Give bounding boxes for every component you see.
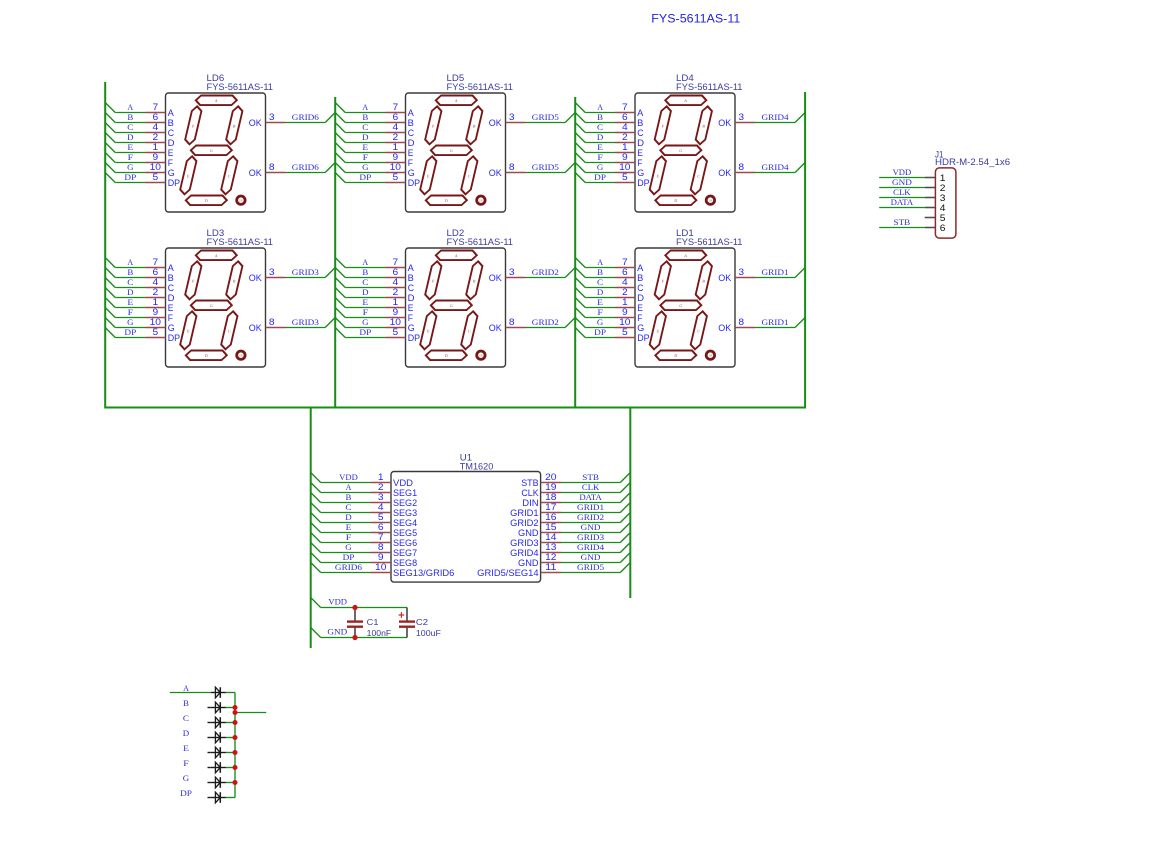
svg-text:D: D bbox=[362, 288, 369, 297]
svg-text:GND: GND bbox=[327, 628, 347, 637]
svg-text:G: G bbox=[362, 318, 369, 327]
svg-text:DP: DP bbox=[124, 173, 136, 182]
svg-text:GRID4: GRID4 bbox=[510, 548, 539, 558]
svg-text:C: C bbox=[597, 123, 603, 132]
svg-text:SEG6: SEG6 bbox=[393, 538, 417, 548]
svg-text:B: B bbox=[362, 268, 368, 277]
svg-text:DP: DP bbox=[343, 553, 355, 562]
svg-text:10: 10 bbox=[375, 562, 386, 572]
svg-text:1: 1 bbox=[378, 472, 384, 482]
svg-text:B: B bbox=[127, 113, 133, 122]
svg-text:A: A bbox=[597, 103, 603, 112]
svg-text:DP: DP bbox=[594, 328, 606, 337]
svg-text:A: A bbox=[346, 483, 352, 492]
svg-text:G: G bbox=[597, 318, 604, 327]
svg-text:SEG4: SEG4 bbox=[393, 518, 417, 528]
svg-text:11: 11 bbox=[545, 562, 556, 572]
svg-text:14: 14 bbox=[545, 532, 556, 542]
svg-text:15: 15 bbox=[545, 522, 556, 532]
svg-text:3: 3 bbox=[940, 193, 946, 203]
svg-text:A: A bbox=[597, 258, 603, 267]
svg-text:GRID6: GRID6 bbox=[292, 163, 319, 172]
svg-text:2: 2 bbox=[940, 183, 946, 193]
svg-text:SEG2: SEG2 bbox=[393, 498, 417, 508]
svg-text:A: A bbox=[362, 258, 368, 267]
svg-text:G: G bbox=[597, 163, 604, 172]
svg-text:8: 8 bbox=[378, 542, 384, 552]
svg-text:D: D bbox=[362, 133, 369, 142]
svg-text:E: E bbox=[346, 523, 352, 532]
svg-text:G: G bbox=[183, 774, 190, 783]
svg-text:FYS-5611AS-11: FYS-5611AS-11 bbox=[676, 237, 743, 247]
svg-text:CLK: CLK bbox=[893, 188, 911, 197]
svg-text:G: G bbox=[345, 543, 352, 552]
svg-text:GRID2: GRID2 bbox=[577, 513, 604, 522]
svg-text:C: C bbox=[362, 123, 368, 132]
svg-text:FYS-5611AS-11: FYS-5611AS-11 bbox=[207, 82, 274, 92]
svg-text:STB: STB bbox=[582, 473, 599, 482]
svg-text:E: E bbox=[362, 143, 368, 152]
svg-text:D: D bbox=[127, 288, 134, 297]
svg-text:19: 19 bbox=[545, 482, 556, 492]
svg-text:B: B bbox=[362, 113, 368, 122]
svg-text:GND: GND bbox=[892, 178, 912, 187]
svg-text:D: D bbox=[597, 133, 604, 142]
svg-text:GRID5/SEG14: GRID5/SEG14 bbox=[477, 568, 538, 578]
svg-text:FYS-5611AS-11: FYS-5611AS-11 bbox=[447, 237, 514, 247]
svg-text:D: D bbox=[597, 288, 604, 297]
svg-text:FYS-5611AS-11: FYS-5611AS-11 bbox=[651, 12, 740, 26]
svg-text:VDD: VDD bbox=[393, 478, 414, 488]
svg-text:GRID1: GRID1 bbox=[510, 508, 539, 518]
svg-text:STB: STB bbox=[894, 218, 911, 227]
svg-text:FYS-5611AS-11: FYS-5611AS-11 bbox=[207, 237, 274, 247]
svg-text:16: 16 bbox=[545, 512, 556, 522]
svg-text:GRID3: GRID3 bbox=[292, 318, 319, 327]
svg-text:G: G bbox=[362, 163, 369, 172]
svg-text:6: 6 bbox=[378, 522, 384, 532]
svg-text:CLK: CLK bbox=[521, 488, 538, 498]
svg-text:B: B bbox=[597, 113, 603, 122]
svg-text:SEG8: SEG8 bbox=[393, 558, 417, 568]
svg-text:DP: DP bbox=[180, 789, 192, 798]
svg-text:C: C bbox=[127, 278, 133, 287]
svg-text:F: F bbox=[363, 308, 369, 317]
svg-text:4: 4 bbox=[940, 203, 946, 213]
svg-text:VDD: VDD bbox=[893, 168, 912, 177]
svg-text:17: 17 bbox=[545, 502, 556, 512]
svg-text:A: A bbox=[127, 103, 133, 112]
svg-text:F: F bbox=[183, 759, 189, 768]
svg-text:E: E bbox=[362, 298, 368, 307]
svg-text:STB: STB bbox=[521, 478, 538, 488]
svg-text:GRID1: GRID1 bbox=[762, 318, 789, 327]
svg-text:F: F bbox=[597, 308, 603, 317]
svg-text:F: F bbox=[128, 308, 134, 317]
svg-text:FYS-5611AS-11: FYS-5611AS-11 bbox=[676, 82, 743, 92]
svg-text:GRID6: GRID6 bbox=[335, 563, 362, 572]
svg-text:E: E bbox=[597, 298, 603, 307]
svg-text:GRID4: GRID4 bbox=[577, 543, 604, 552]
svg-text:B: B bbox=[346, 493, 352, 502]
svg-text:C: C bbox=[597, 278, 603, 287]
svg-text:7: 7 bbox=[378, 532, 384, 542]
svg-text:20: 20 bbox=[545, 472, 556, 482]
svg-text:3: 3 bbox=[378, 492, 384, 502]
svg-text:9: 9 bbox=[378, 552, 384, 562]
svg-text:GRID4: GRID4 bbox=[762, 113, 789, 122]
svg-text:1: 1 bbox=[940, 173, 946, 183]
svg-text:4: 4 bbox=[378, 502, 384, 512]
svg-text:GRID3: GRID3 bbox=[510, 538, 539, 548]
svg-text:GND: GND bbox=[581, 523, 601, 532]
svg-text:GND: GND bbox=[518, 528, 539, 538]
svg-text:DP: DP bbox=[594, 173, 606, 182]
svg-text:12: 12 bbox=[545, 552, 556, 562]
svg-text:GND: GND bbox=[518, 558, 539, 568]
svg-text:SEG13/GRID6: SEG13/GRID6 bbox=[393, 568, 454, 578]
svg-text:E: E bbox=[183, 744, 189, 753]
svg-text:C: C bbox=[183, 714, 189, 723]
svg-text:VDD: VDD bbox=[328, 598, 347, 607]
svg-text:GRID1: GRID1 bbox=[577, 503, 604, 512]
svg-text:C: C bbox=[127, 123, 133, 132]
svg-text:6: 6 bbox=[940, 223, 946, 233]
svg-text:F: F bbox=[128, 153, 134, 162]
svg-text:F: F bbox=[597, 153, 603, 162]
svg-text:E: E bbox=[127, 298, 133, 307]
svg-text:DATA: DATA bbox=[891, 198, 914, 207]
svg-text:F: F bbox=[363, 153, 369, 162]
svg-text:18: 18 bbox=[545, 492, 556, 502]
svg-text:GRID3: GRID3 bbox=[577, 533, 604, 542]
svg-text:A: A bbox=[362, 103, 368, 112]
svg-text:GRID5: GRID5 bbox=[532, 163, 559, 172]
svg-text:B: B bbox=[597, 268, 603, 277]
svg-text:GRID2: GRID2 bbox=[532, 268, 559, 277]
svg-text:GRID2: GRID2 bbox=[532, 318, 559, 327]
svg-text:G: G bbox=[127, 318, 134, 327]
svg-text:GRID4: GRID4 bbox=[762, 163, 789, 172]
svg-text:SEG7: SEG7 bbox=[393, 548, 417, 558]
svg-text:GND: GND bbox=[581, 553, 601, 562]
svg-text:SEG1: SEG1 bbox=[393, 488, 417, 498]
svg-text:GRID5: GRID5 bbox=[532, 113, 559, 122]
svg-text:GRID5: GRID5 bbox=[577, 563, 604, 572]
svg-text:A: A bbox=[183, 684, 189, 693]
svg-text:GRID3: GRID3 bbox=[292, 268, 319, 277]
svg-text:5: 5 bbox=[378, 512, 384, 522]
svg-text:VDD: VDD bbox=[339, 473, 358, 482]
svg-text:GRID1: GRID1 bbox=[762, 268, 789, 277]
svg-text:FYS-5611AS-11: FYS-5611AS-11 bbox=[447, 82, 514, 92]
svg-text:GRID2: GRID2 bbox=[510, 518, 539, 528]
svg-text:C: C bbox=[362, 278, 368, 287]
svg-text:DP: DP bbox=[124, 328, 136, 337]
svg-text:5: 5 bbox=[940, 213, 946, 223]
svg-text:DIN: DIN bbox=[522, 498, 538, 508]
svg-text:DP: DP bbox=[359, 173, 371, 182]
svg-text:HDR-M-2.54_1x6: HDR-M-2.54_1x6 bbox=[935, 157, 1010, 167]
svg-text:SEG5: SEG5 bbox=[393, 528, 417, 538]
svg-text:2: 2 bbox=[378, 482, 384, 492]
svg-text:C: C bbox=[345, 503, 351, 512]
svg-text:D: D bbox=[345, 513, 352, 522]
svg-text:A: A bbox=[127, 258, 133, 267]
svg-text:E: E bbox=[597, 143, 603, 152]
svg-text:CLK: CLK bbox=[582, 483, 600, 492]
svg-text:DP: DP bbox=[359, 328, 371, 337]
svg-text:C2: C2 bbox=[416, 617, 428, 627]
svg-text:TM1620: TM1620 bbox=[460, 461, 494, 471]
svg-text:G: G bbox=[127, 163, 134, 172]
svg-text:E: E bbox=[127, 143, 133, 152]
svg-text:F: F bbox=[346, 533, 352, 542]
svg-text:13: 13 bbox=[545, 542, 556, 552]
svg-text:GRID6: GRID6 bbox=[292, 113, 319, 122]
svg-text:DATA: DATA bbox=[579, 493, 602, 502]
svg-text:B: B bbox=[183, 699, 189, 708]
svg-text:D: D bbox=[127, 133, 134, 142]
svg-text:100nF: 100nF bbox=[367, 628, 392, 638]
svg-text:C1: C1 bbox=[367, 617, 379, 627]
svg-text:100uF: 100uF bbox=[416, 628, 441, 638]
svg-text:D: D bbox=[183, 729, 190, 738]
svg-text:SEG3: SEG3 bbox=[393, 508, 417, 518]
svg-text:B: B bbox=[127, 268, 133, 277]
